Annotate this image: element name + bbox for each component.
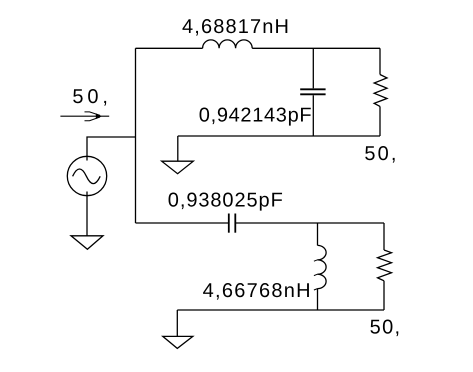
wire cap C1 upper lead xyxy=(312,48,314,88)
wire bottom branch right segment xyxy=(235,222,384,224)
wire cap C1 lower lead xyxy=(312,95,314,136)
wire bottom branch left segment xyxy=(136,222,229,224)
inductor L1 4,68817nH xyxy=(203,40,253,48)
wire bottom ground stem xyxy=(176,310,178,336)
wire bottom right vertical lower lead xyxy=(383,281,385,310)
ground source xyxy=(71,236,103,250)
source V1 sine xyxy=(73,169,101,184)
wire inductor L2 upper lead xyxy=(317,223,319,245)
wire top right vertical lower lead xyxy=(379,106,381,136)
svg-text:4,66768nH: 4,66768nH xyxy=(203,280,311,302)
wire top branch left segment xyxy=(136,47,203,49)
wire source bottom stem xyxy=(86,192,88,236)
port arrow P1 xyxy=(60,115,109,117)
wire inductor L2 lower lead xyxy=(317,289,319,310)
wire top ground stem xyxy=(177,136,179,161)
wire top branch right segment xyxy=(252,47,380,49)
svg-text:4,68817nH: 4,68817nH xyxy=(182,16,289,38)
svg-text:0,942143pF: 0,942143pF xyxy=(199,105,312,127)
svg-text:50,: 50, xyxy=(72,86,108,108)
wire source top horizontal xyxy=(87,137,136,161)
wire top right vertical upper lead xyxy=(379,48,381,74)
svg-text:0,938025pF: 0,938025pF xyxy=(168,190,283,212)
source V1 circle xyxy=(67,156,106,195)
resistor R1 50 top xyxy=(374,75,387,107)
wire top branch bottom rail xyxy=(178,135,380,137)
capacitor C1 0,942143pF xyxy=(300,89,325,94)
wire bottom branch bottom rail xyxy=(177,309,384,311)
svg-text:50,: 50, xyxy=(370,317,401,339)
wire bottom right vertical upper lead xyxy=(383,223,385,250)
ground top section xyxy=(162,161,194,174)
capacitor C2 0,938025pF xyxy=(229,214,236,233)
svg-text:50,: 50, xyxy=(364,143,396,165)
ground bottom section xyxy=(163,336,193,348)
resistor R2 50 bottom xyxy=(378,250,392,281)
wire left vertical bus xyxy=(135,48,137,223)
inductor L2 4,66768nH xyxy=(318,245,327,288)
